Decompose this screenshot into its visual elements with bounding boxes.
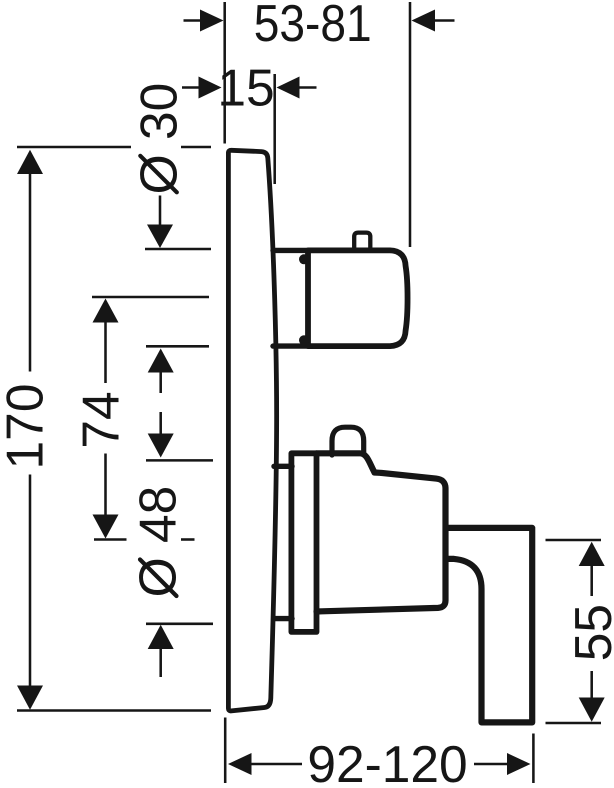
mid dim tick at knob bottom	[146, 345, 209, 348]
dim O48 top tick	[146, 459, 213, 462]
dim 74 bottom tick seg1	[94, 538, 127, 541]
arrow mid down	[148, 434, 174, 458]
wall plate	[228, 150, 276, 711]
arrow 15 right	[277, 77, 300, 99]
dim 170 vertical line lower	[29, 475, 32, 687]
arrow O48 bottom up	[148, 625, 174, 649]
svg-text:55: 55	[564, 604, 614, 661]
dim 74 vertical line lower	[104, 454, 107, 516]
arrow mid up	[148, 349, 174, 373]
arrow 55 down	[579, 698, 605, 722]
svg-text:74: 74	[72, 391, 130, 448]
svg-text:92-120: 92-120	[307, 735, 467, 788]
svg-text:170: 170	[0, 384, 54, 470]
dim 74 vertical line upper	[104, 322, 107, 383]
handle neck bottom line	[274, 616, 292, 621]
dim 74 bottom tick seg2	[181, 538, 195, 541]
arrow 55 up	[579, 542, 605, 566]
arrow 170 down	[17, 686, 43, 710]
dim 55 vertical line lower	[590, 671, 593, 698]
dim 55 vertical line upper	[590, 566, 593, 596]
lever arm	[446, 528, 532, 723]
dim 15 line right	[299, 86, 317, 89]
svg-text:O 48: O 48	[129, 486, 187, 598]
svg-text:15: 15	[217, 59, 274, 117]
extension line lever bar right	[532, 734, 535, 784]
extension line wall face top	[223, 2, 226, 144]
O30 diameter slash	[140, 156, 177, 193]
extension line knob front	[409, 2, 412, 247]
arrow 170 up	[17, 150, 43, 174]
dim O30 vertical line	[159, 196, 162, 226]
dim 92-120 line left	[251, 763, 302, 766]
svg-text:O 30: O 30	[130, 83, 188, 195]
dim 53-81 line left	[184, 19, 202, 22]
dim 55 top tick	[546, 539, 602, 542]
arrow 92-120 right	[507, 753, 531, 775]
dim O30 tick top seg2	[181, 146, 211, 149]
knob bump bottom	[299, 335, 309, 345]
dim 55 bottom tick	[546, 722, 602, 725]
extension line wall face bottom	[224, 718, 227, 784]
handle body	[317, 453, 446, 611]
arrow O30 down	[147, 225, 173, 249]
dim O30 tick top seg1 (shared with 170 top tick)	[17, 146, 131, 149]
O48 diameter slash	[140, 560, 177, 597]
arrow 92-120 left	[228, 753, 252, 775]
arrow 53-81 right	[412, 10, 436, 32]
handle sleeve	[291, 453, 316, 632]
dim O48 tail line below	[159, 649, 162, 677]
svg-text:53-81: 53-81	[254, 0, 372, 52]
thermostat knob body	[308, 250, 408, 346]
handle neck top line	[274, 464, 292, 469]
mid dim line lower	[159, 412, 162, 434]
dim O48 bottom tick	[146, 623, 213, 626]
arrow 74 up	[93, 299, 119, 323]
knob neck bottom line	[273, 343, 308, 348]
knob bump top	[299, 254, 309, 264]
arrow 53-81 left	[200, 10, 224, 32]
dim 170 bottom tick	[17, 709, 211, 712]
knob button	[354, 233, 370, 249]
dim 53-81 line right	[435, 19, 455, 22]
arrow 15 left	[199, 77, 222, 99]
mid dim line upper	[159, 372, 162, 393]
dim 170 vertical line upper	[29, 174, 32, 372]
handle cap	[332, 427, 364, 455]
extension line plate front	[273, 74, 276, 184]
dim 74 top tick	[92, 296, 209, 299]
dim 92-120 line right	[474, 763, 508, 766]
knob neck top line	[273, 248, 308, 253]
dim O30 tick bottom	[145, 248, 211, 251]
dim 15 line left	[182, 86, 200, 89]
arrow 74 down	[93, 515, 119, 539]
